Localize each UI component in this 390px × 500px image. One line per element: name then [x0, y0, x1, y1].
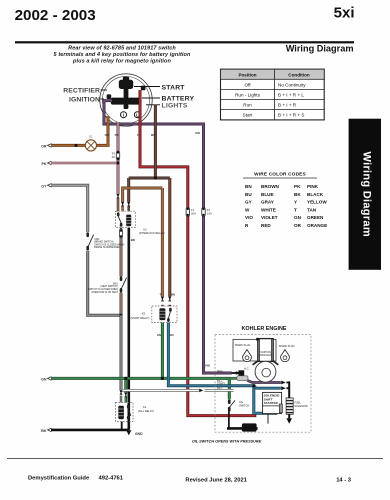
svg-text:RECTIFIER: RECTIFIER — [63, 88, 100, 95]
svg-text:Rear view of 92-6785 and 10191: Rear view of 92-6785 and 101917 switch — [68, 46, 176, 52]
wire BU branch to engine junction — [254, 386, 281, 388]
svg-text:LIGHTS: LIGHTS — [162, 103, 188, 110]
wire BU blue from start relay K3 to starter solenoid — [168, 323, 277, 414]
svg-text:BLACK: BLACK — [307, 192, 324, 197]
title model 5xi — [334, 4, 355, 21]
label BN above K3 — [171, 292, 175, 296]
connector pair on T wire at K2 — [121, 202, 124, 207]
wire GY gray down to kill relay K1 — [120, 315, 123, 402]
ground arrow GND — [126, 430, 143, 436]
ac terminal block — [237, 370, 248, 380]
fuel solenoid SOL1 — [286, 398, 293, 414]
relay K3 label — [131, 312, 150, 320]
svg-text:Position: Position — [238, 72, 256, 77]
wire tag PK — [115, 133, 120, 137]
fuel solenoid label — [294, 400, 308, 407]
svg-text:Wiring Diagram: Wiring Diagram — [361, 152, 373, 237]
svg-text:TAN: TAN — [307, 207, 317, 212]
flywheel stator — [255, 361, 276, 382]
svg-text:ORANGE: ORANGE — [307, 223, 327, 228]
svg-text:Off: Off — [244, 82, 251, 87]
wire GN green feed bus — [51, 378, 229, 399]
wire R red from key switch B to starter — [140, 90, 255, 416]
key switch terminal L pin 2 — [134, 112, 140, 118]
wire BK black feed — [51, 429, 129, 432]
wire GN stub to stator connector — [229, 377, 237, 380]
relay K3 coil — [159, 308, 165, 320]
oil switch note — [192, 439, 262, 443]
svg-text:5xi: 5xi — [334, 4, 355, 21]
wire PK pink horizontal feed — [51, 162, 118, 165]
spark plug left label — [235, 344, 251, 347]
header Wiring Diagram — [286, 44, 354, 54]
relay K2 box — [115, 211, 135, 227]
wire BK stub from kill relay K1 — [121, 422, 123, 430]
module lead to right plug — [273, 361, 279, 365]
fuse F3 — [112, 151, 120, 160]
svg-text:BN: BN — [151, 133, 155, 137]
svg-text:BROWN: BROWN — [261, 184, 280, 189]
svg-text:Demystification Guide: Demystification Guide — [28, 476, 90, 482]
svg-text:K3: K3 — [142, 312, 146, 316]
relay K2 label — [139, 228, 165, 235]
wire OR orange from key switch I — [51, 116, 108, 145]
connector arrow white wire — [199, 389, 203, 393]
svg-text:(SEAT SWITCH): (SEAT SWITCH) — [101, 285, 118, 288]
svg-text:OIL: OIL — [239, 400, 244, 404]
switch note text — [54, 46, 191, 65]
key switch center post — [124, 86, 129, 109]
svg-text:KOHLER ENGINE: KOHLER ENGINE — [242, 326, 287, 332]
svg-text:PK: PK — [294, 184, 301, 189]
svg-text:SWITCH IS CLOSED WHEN: SWITCH IS CLOSED WHEN — [88, 289, 118, 291]
seat switch SW1 — [120, 276, 127, 293]
wire VIO magneto branch to kill junction — [248, 381, 281, 383]
svg-text:STARTER: STARTER — [264, 401, 279, 405]
node BU junction — [252, 384, 255, 387]
key switch terminal R — [107, 94, 125, 104]
svg-text:B + I + R + L: B + I + R + L — [278, 93, 304, 98]
svg-text:K1: K1 — [143, 405, 147, 409]
wire W white to engine regulator — [122, 389, 234, 392]
svg-text:MODULE(S): MODULE(S) — [259, 354, 273, 357]
spark plug left — [243, 350, 252, 362]
engine terminal label KILL — [217, 380, 223, 383]
title year — [15, 7, 96, 24]
connector arrows VIO to black — [281, 381, 289, 385]
svg-text:BK: BK — [294, 192, 301, 197]
wire BK fuel solenoid — [288, 381, 290, 418]
svg-text:OR: OR — [294, 223, 302, 228]
connector pair on BN wire at K3 — [168, 297, 171, 302]
connector pair on BN wire at K2 — [127, 202, 130, 207]
label GN below K3 — [157, 333, 161, 337]
left feed label GN — [41, 377, 51, 382]
left feed label OR — [41, 144, 51, 149]
svg-text:WIRE COLOR CODES: WIRE COLOR CODES — [254, 172, 306, 177]
wire BK black from relay K2 to ground — [128, 228, 131, 430]
svg-text:Y: Y — [294, 200, 297, 205]
svg-text:492-4761: 492-4761 — [99, 476, 124, 482]
node BN junction — [154, 176, 157, 179]
key switch label BATTERY — [142, 96, 195, 103]
key switch terminal I pin 1 — [121, 112, 127, 118]
svg-text:BN: BN — [245, 184, 252, 189]
svg-text:BN: BN — [171, 292, 175, 296]
svg-text:A.C.: A.C. — [244, 366, 250, 370]
svg-text:OIL SWITCH OPENS WITH PRESSURE: OIL SWITCH OPENS WITH PRESSURE — [192, 439, 262, 443]
svg-text:SWITCH: SWITCH — [239, 404, 249, 408]
relay K3 contact — [167, 308, 172, 322]
wire BN seat switch column from relay K2 — [120, 228, 122, 316]
wire T tan drop to relay K3 left — [161, 188, 164, 306]
svg-text:2002 - 2003: 2002 - 2003 — [15, 7, 96, 24]
svg-text:B + I + R + S: B + I + R + S — [278, 113, 304, 118]
ac label — [244, 366, 250, 370]
svg-text:START: START — [217, 383, 225, 386]
connector pair on PK wire — [117, 194, 120, 199]
oil switch label — [239, 400, 249, 407]
wire tag OR — [105, 133, 110, 137]
node on module top — [256, 338, 259, 341]
wire GN branch to kill relay K1 — [124, 378, 127, 402]
kohler engine title — [242, 326, 287, 332]
svg-text:IGNITION: IGNITION — [69, 97, 100, 104]
brake switch SW2 label — [94, 239, 124, 249]
key switch label START — [134, 84, 185, 91]
svg-text:Run - Lights: Run - Lights — [235, 93, 260, 98]
svg-text:SPARK PLUG: SPARK PLUG — [235, 344, 251, 347]
svg-text:VIOLET: VIOLET — [261, 215, 278, 220]
label BU below K3 — [170, 333, 174, 337]
key switch terminal B — [128, 86, 146, 105]
wire tag BN — [151, 133, 155, 137]
svg-text:B + I + R: B + I + R — [278, 103, 297, 108]
module lead to left plug — [253, 361, 259, 365]
svg-text:(START RELAY): (START RELAY) — [131, 316, 150, 320]
svg-text:plus a kill relay for magneto: plus a kill relay for magneto ignition — [72, 59, 171, 65]
svg-text:PINK: PINK — [307, 184, 319, 189]
kohler engine boundary box — [215, 335, 311, 433]
wire GY gray below SW2 to junction — [88, 251, 121, 315]
svg-text:20A: 20A — [191, 212, 196, 216]
ac stator lead — [232, 372, 239, 374]
svg-text:GREEN: GREEN — [307, 215, 324, 220]
node splice on orange wire — [75, 144, 78, 147]
svg-text:Revised June 28, 2021: Revised June 28, 2021 — [185, 478, 247, 484]
svg-text:WHITE: WHITE — [261, 207, 276, 212]
svg-text:GY: GY — [41, 184, 47, 188]
svg-text:RED: RED — [261, 223, 271, 228]
svg-text:(BRAKE SWITCH): (BRAKE SWITCH) — [94, 241, 113, 244]
svg-text:BRAKE IS DEPRESSED: BRAKE IS DEPRESSED — [94, 246, 120, 249]
ground arrow fuel solenoid — [286, 418, 292, 424]
svg-text:OR: OR — [41, 144, 47, 148]
svg-text:T: T — [294, 207, 297, 212]
inline connector on seat switch wire — [119, 229, 122, 237]
svg-text:MAG: MAG — [217, 370, 223, 373]
svg-text:Wiring Diagram: Wiring Diagram — [286, 44, 354, 54]
starter motor block — [242, 423, 257, 431]
engine terminal label START — [217, 383, 225, 386]
svg-text:GN: GN — [294, 215, 302, 220]
svg-text:VIO: VIO — [245, 215, 253, 220]
node GN junction at K3 drop — [161, 377, 164, 380]
left feed label PK — [42, 161, 52, 166]
relay K2 contact — [117, 212, 123, 226]
svg-text:REG: REG — [217, 388, 222, 391]
svg-text:W: W — [245, 207, 250, 212]
node junction gray brake seat — [119, 314, 122, 317]
wire T tan horizontal bus — [123, 188, 163, 211]
svg-text:SOLENOID: SOLENOID — [294, 404, 308, 408]
key switch SW-KEY body — [100, 74, 152, 126]
left feed label GY — [41, 184, 51, 189]
svg-text:START: START — [162, 84, 186, 91]
svg-text:(INTERLOCK RELAY): (INTERLOCK RELAY) — [139, 231, 165, 235]
starter solenoid label — [264, 394, 281, 406]
svg-text:GN: GN — [41, 377, 47, 381]
engine terminal label REG — [217, 388, 222, 391]
svg-text:D1: D1 — [89, 135, 93, 139]
fuse F2 — [202, 207, 212, 216]
ignition module U1 — [258, 339, 273, 362]
label BK below K2 — [131, 238, 136, 242]
wire GY gray feed to brake switch SW2 — [51, 185, 88, 232]
node GN junction at K1 branch — [124, 377, 127, 380]
ignition assembly frame — [233, 339, 276, 361]
footer rule — [7, 458, 383, 460]
svg-text:GY: GY — [245, 200, 252, 205]
svg-text:YELLOW: YELLOW — [307, 200, 327, 205]
svg-text:GND: GND — [135, 432, 143, 436]
wire color codes legend — [243, 172, 327, 229]
svg-text:PK: PK — [42, 162, 47, 166]
key switch label IGNITION — [69, 97, 104, 104]
label GY above K3 — [160, 292, 162, 296]
connector pair on T wire at K3 — [161, 297, 164, 302]
ground bus bar — [227, 411, 258, 428]
wire BN maroon horizontal bus — [129, 177, 170, 180]
svg-text:14 - 3: 14 - 3 — [336, 478, 352, 484]
left feed label BK — [41, 428, 51, 433]
key switch label LIGHTS — [146, 103, 188, 110]
connector arrows BU to black — [281, 386, 289, 390]
kill relay K1 coil — [118, 406, 124, 419]
svg-text:No Continuity: No Continuity — [278, 82, 306, 87]
engine terminal label MAG — [217, 370, 223, 373]
relay K3 box — [152, 306, 177, 323]
brake switch SW2 — [86, 232, 93, 250]
key switch terminal S — [119, 77, 133, 89]
node PK junction — [117, 162, 120, 165]
svg-text:SWITCH IS CLOSED WHEN: SWITCH IS CLOSED WHEN — [94, 244, 124, 246]
wire tag VIO — [195, 131, 201, 135]
fuse F1 — [186, 207, 196, 216]
svg-text:SW2: SW2 — [94, 239, 100, 241]
sidebar tab — [349, 119, 381, 270]
wire tag R — [137, 133, 140, 137]
wire BN drop to relay K3 right — [168, 178, 171, 306]
wire GN from start relay K3 — [161, 323, 164, 379]
svg-text:GN: GN — [157, 333, 161, 337]
svg-text:FUEL: FUEL — [294, 400, 301, 404]
svg-text:Run: Run — [243, 103, 252, 108]
key switch label RECTIFIER — [63, 88, 107, 95]
relay K2 coil — [126, 215, 131, 227]
svg-text:VIO: VIO — [195, 131, 201, 135]
starter solenoid box — [263, 392, 283, 413]
hour meter D1 on orange wire — [85, 135, 96, 151]
position condition table — [221, 69, 325, 120]
svg-text:I: I — [123, 113, 124, 118]
svg-text:Start: Start — [243, 113, 253, 118]
kill relay K1 label — [138, 405, 154, 413]
kill relay K1 contact — [127, 405, 131, 420]
svg-text:5 terminals and 4 key position: 5 terminals and 4 key positions for batt… — [54, 52, 191, 58]
svg-text:BK: BK — [41, 429, 47, 433]
svg-text:15A: 15A — [207, 212, 212, 216]
svg-text:4A: 4A — [112, 155, 116, 159]
svg-text:SPARK PLUG: SPARK PLUG — [279, 345, 295, 348]
footer text — [28, 476, 352, 484]
svg-text:BLUE: BLUE — [261, 192, 274, 197]
spark plug right label — [279, 345, 295, 348]
svg-text:BU: BU — [245, 192, 252, 197]
connector pair on GN wire at K1 — [124, 393, 127, 398]
wire PK stub into relay K2 — [117, 198, 120, 211]
svg-text:VIO: VIO — [205, 363, 211, 367]
header rule — [15, 41, 354, 43]
svg-text:GRAY: GRAY — [261, 200, 274, 205]
connector pair on GY wire at K1 — [120, 390, 123, 395]
oil pressure switch — [228, 399, 235, 411]
wire tag VIO lower — [205, 363, 211, 367]
wire BN drop to relay K2 coil — [127, 178, 130, 211]
wire VIO from key switch R to engine MAG — [104, 101, 232, 373]
svg-text:(KILL RELAY): (KILL RELAY) — [138, 409, 154, 413]
svg-text:BU: BU — [170, 333, 174, 337]
node VIO to AC — [235, 372, 238, 375]
seat switch SW1 label — [88, 283, 119, 293]
svg-text:Condition: Condition — [288, 72, 310, 77]
spark plug right — [281, 350, 290, 362]
svg-text:OPERATOR IS ON SEAT: OPERATOR IS ON SEAT — [91, 291, 118, 294]
starter motor lead — [267, 414, 269, 424]
wire BN maroon from key switch L — [154, 105, 157, 178]
wire PK pink from key switch down — [117, 122, 120, 194]
kill relay K1 box — [115, 403, 133, 422]
svg-text:SW1: SW1 — [113, 283, 119, 285]
